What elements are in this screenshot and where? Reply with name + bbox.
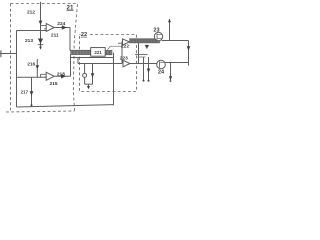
svg-text:224: 224 — [57, 21, 65, 27]
svg-text:24: 24 — [158, 70, 165, 76]
svg-text:216: 216 — [27, 61, 35, 67]
svg-text:217: 217 — [21, 90, 29, 95]
svg-text:212: 212 — [27, 10, 35, 16]
svg-text:223: 223 — [120, 55, 128, 61]
svg-text:218: 218 — [57, 71, 65, 77]
svg-text:221: 221 — [94, 50, 102, 55]
svg-text:22: 22 — [81, 32, 87, 38]
svg-text:211: 211 — [51, 32, 59, 38]
svg-text:21: 21 — [67, 4, 74, 11]
svg-text:213: 213 — [25, 38, 33, 44]
svg-text:222: 222 — [121, 43, 129, 49]
svg-text:23: 23 — [153, 27, 159, 33]
svg-text:215: 215 — [49, 81, 57, 87]
